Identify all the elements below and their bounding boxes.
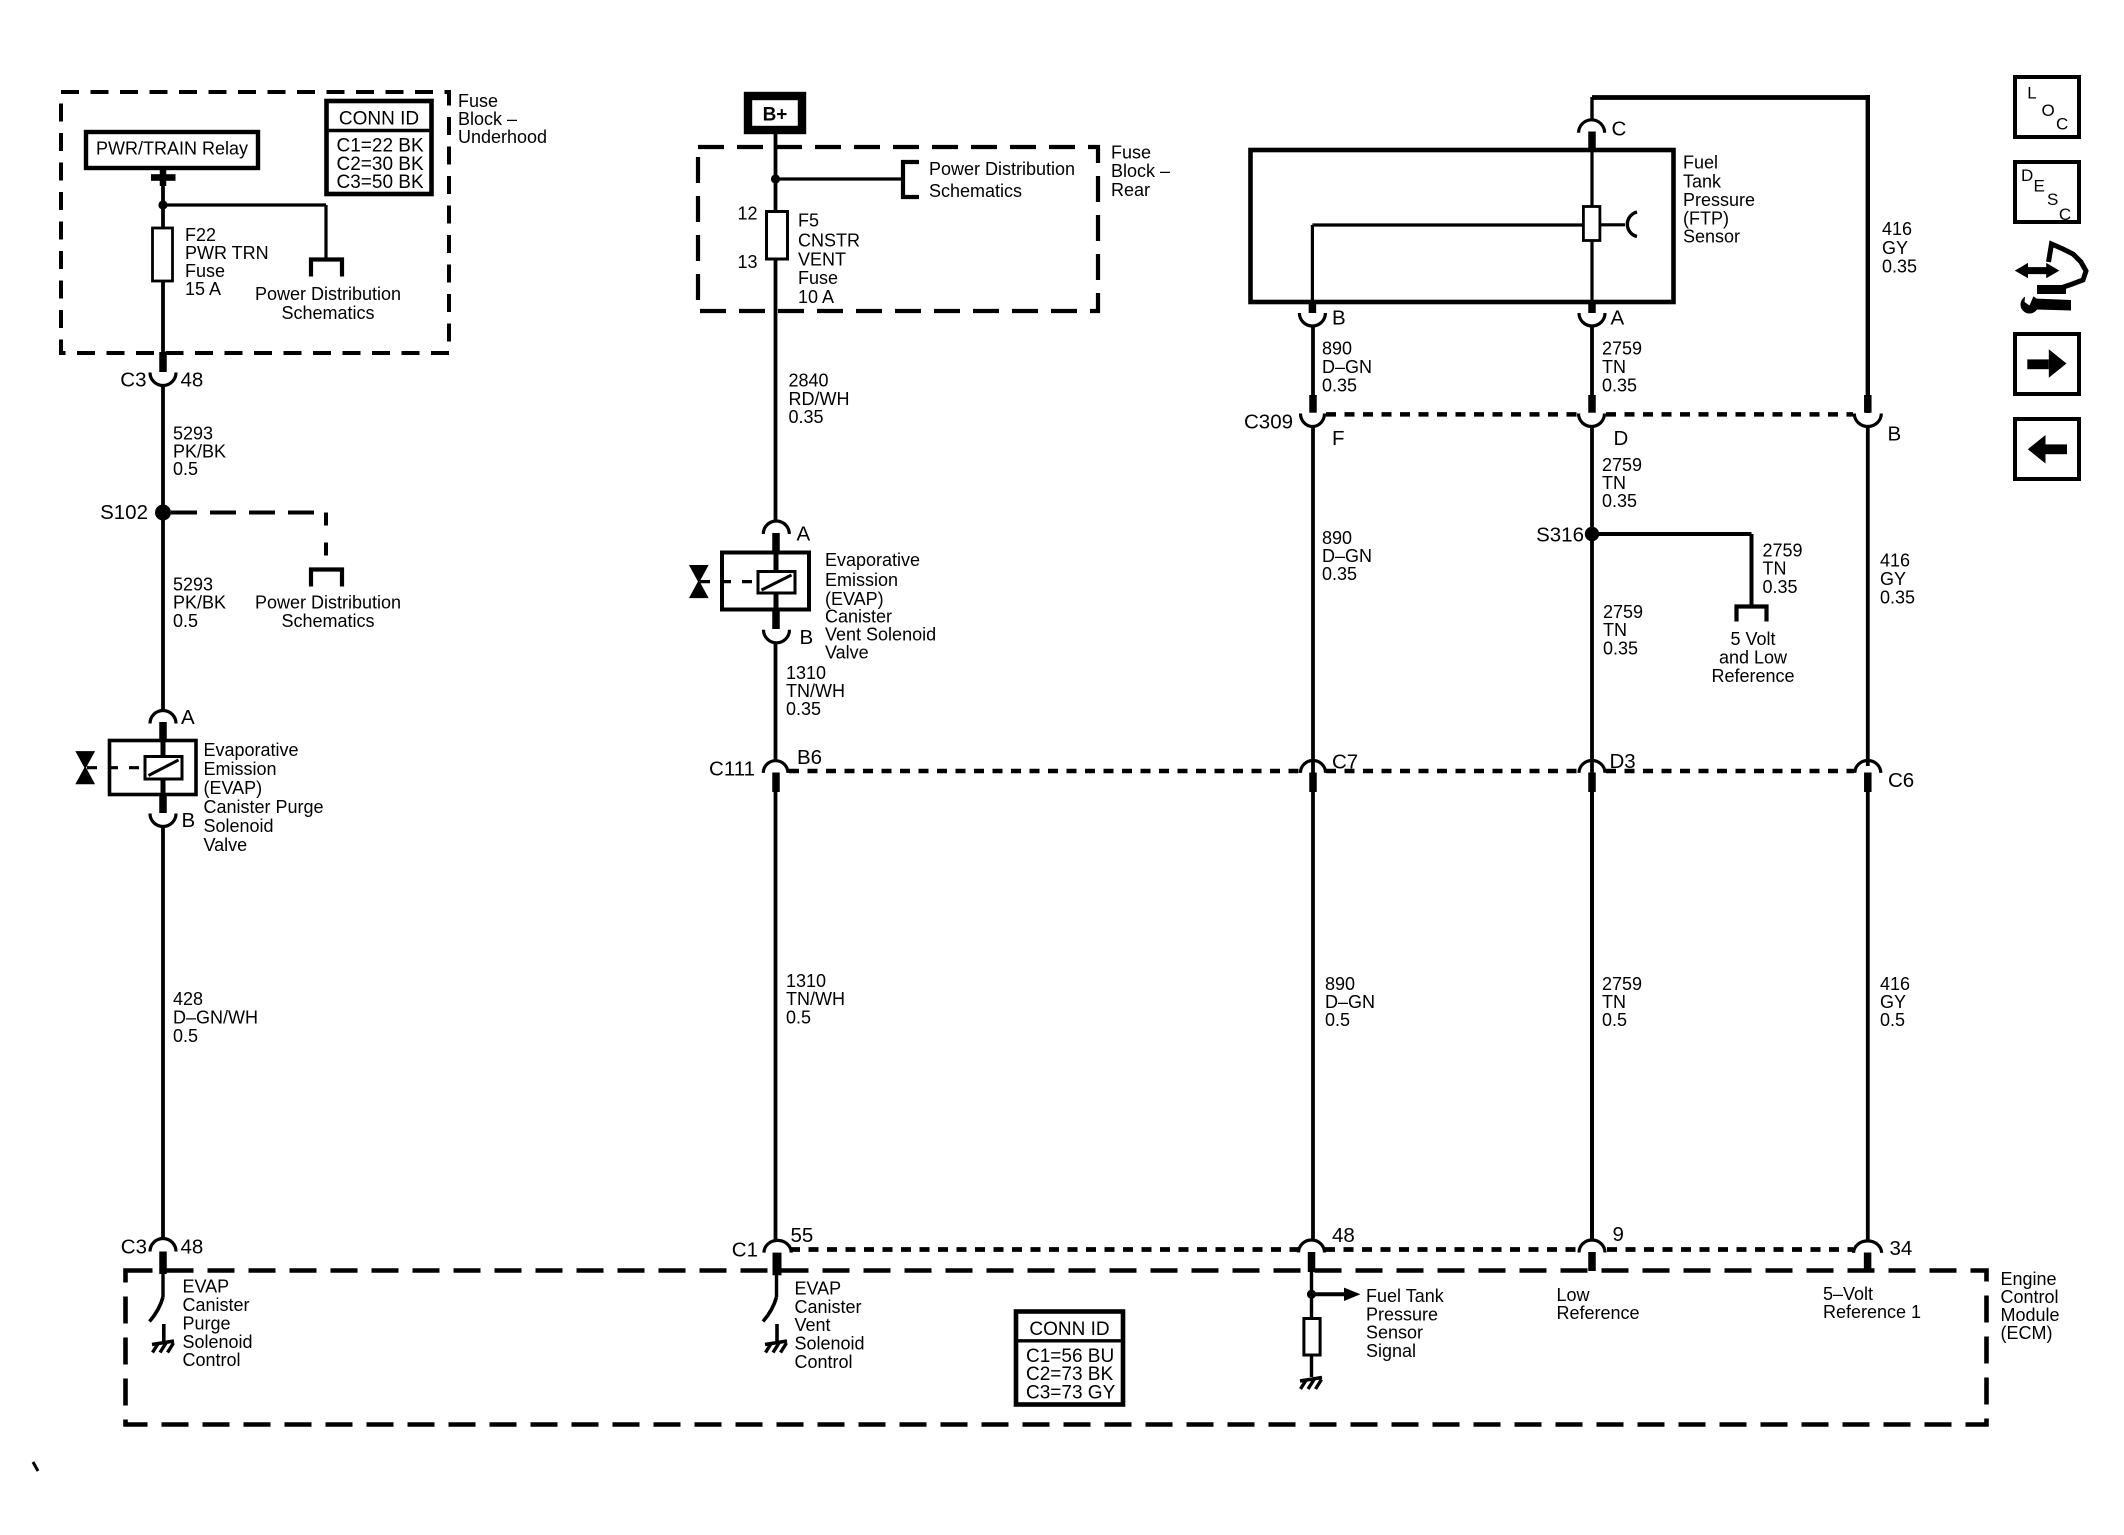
svg-text:Canister Purge: Canister Purge <box>204 797 324 817</box>
svg-text:A: A <box>1611 307 1625 330</box>
wire: tap to power distribution <box>776 177 904 180</box>
relay K: PWR/TRAIN Relay box <box>86 132 258 168</box>
connector pin B (FTP) <box>1309 301 1317 313</box>
svg-text:Purge: Purge <box>183 1313 231 1333</box>
svg-text:0.35: 0.35 <box>1602 491 1637 511</box>
svg-text:TN: TN <box>1603 620 1627 640</box>
connector C111 pin C7 <box>1300 761 1325 773</box>
svg-text:5 Volt: 5 Volt <box>1730 629 1775 649</box>
svg-text:Pressure: Pressure <box>1683 190 1755 210</box>
svg-text:B6: B6 <box>797 746 822 769</box>
svg-text:B: B <box>800 626 814 649</box>
svg-text:Canister: Canister <box>795 1297 862 1317</box>
Fuel Tank Pressure sensor box <box>1251 150 1674 302</box>
wire 2759 TN 0.35 (upper) <box>1590 326 1594 396</box>
svg-text:L: L <box>2027 84 2036 103</box>
svg-text:0.5: 0.5 <box>173 611 198 631</box>
svg-text:Fuse: Fuse <box>798 268 838 288</box>
svg-text:Solenoid: Solenoid <box>204 816 274 836</box>
svg-text:and Low: and Low <box>1719 648 1788 668</box>
wire: relay to fuse F22 <box>161 184 165 228</box>
wire 1310 TN/WH 0.35 <box>774 643 778 760</box>
svg-text:13: 13 <box>737 252 757 272</box>
svg-text:C1: C1 <box>732 1238 758 1261</box>
svg-text:Solenoid: Solenoid <box>183 1332 253 1352</box>
svg-text:Fuse: Fuse <box>185 261 225 281</box>
svg-text:RD/WH: RD/WH <box>789 389 850 409</box>
icon: DESC button <box>2015 162 2079 222</box>
svg-text:2840: 2840 <box>789 371 829 391</box>
svg-text:C: C <box>2056 115 2068 134</box>
svg-text:9: 9 <box>1613 1223 1624 1246</box>
svg-text:Sensor: Sensor <box>1366 1323 1423 1343</box>
off-page bracket: Power Distribution (S102) <box>311 570 342 587</box>
svg-text:C3=73 GY: C3=73 GY <box>1026 1382 1116 1403</box>
svg-text:Reference 1: Reference 1 <box>1823 1302 1921 1322</box>
EVAP canister vent solenoid valve box <box>722 553 809 610</box>
connector C111 pin D3 <box>1579 761 1605 773</box>
svg-text:Solenoid: Solenoid <box>795 1334 865 1354</box>
resistor (ECM internal) <box>1304 1319 1320 1356</box>
svg-text:1310: 1310 <box>786 971 826 991</box>
dashed tap from S102 <box>171 511 326 515</box>
component box: Fuse Block - Rear (dashed) <box>698 147 1098 311</box>
wire 890 D-GN 0.35 (upper) <box>1311 326 1315 396</box>
svg-text:PWR/TRAIN Relay: PWR/TRAIN Relay <box>96 139 248 159</box>
svg-text:Emission: Emission <box>204 759 277 779</box>
module box: Engine Control Module (dashed) <box>126 1271 1987 1425</box>
svg-text:0.5: 0.5 <box>1880 1010 1905 1030</box>
svg-text:D–GN: D–GN <box>1322 546 1372 566</box>
wire 5293 PK/BK 0.5 <box>161 387 165 712</box>
connector pin B (EVAP purge valve) <box>159 795 167 814</box>
svg-text:2759: 2759 <box>1763 540 1803 560</box>
connector pin 9 (Low Reference) <box>1579 1240 1605 1253</box>
svg-text:TN: TN <box>1602 992 1626 1012</box>
svg-text:Power Distribution: Power Distribution <box>255 593 401 613</box>
svg-text:0.35: 0.35 <box>1880 587 1915 607</box>
connector C111 pin C6 <box>1855 761 1881 773</box>
CONN ID table (underhood fuse block) <box>327 101 432 194</box>
svg-text:C3: C3 <box>120 369 146 392</box>
off-page bracket: 5 Volt and Low Reference <box>1737 607 1767 622</box>
svg-text:VENT: VENT <box>798 249 846 269</box>
svg-text:(EVAP): (EVAP) <box>204 778 263 798</box>
svg-text:D–GN/WH: D–GN/WH <box>173 1008 258 1028</box>
relay terminal bar <box>160 168 167 186</box>
ground (ECM internal) <box>1300 1378 1322 1382</box>
svg-text:Fuse: Fuse <box>1111 142 1151 162</box>
svg-text:PWR TRN: PWR TRN <box>185 243 269 263</box>
svg-text:B: B <box>1888 423 1902 446</box>
wire: B+ into fuse block <box>774 134 778 212</box>
svg-text:2759: 2759 <box>1603 602 1643 622</box>
valve actuator symbol (hourglass, vent) <box>690 566 707 598</box>
wire: tap to power distribution reference <box>163 203 326 206</box>
ECM driver switch (EVAP vent control) <box>775 1273 778 1297</box>
splice S102 <box>155 505 171 521</box>
svg-text:Underhood: Underhood <box>458 127 547 147</box>
svg-text:Tank: Tank <box>1683 172 1722 192</box>
wire 890 D-GN 0.35 (lower) <box>1311 427 1315 1241</box>
svg-text:Engine: Engine <box>2001 1269 2057 1289</box>
svg-text:CNSTR: CNSTR <box>798 231 860 251</box>
connector pin B (EVAP vent valve) <box>772 610 780 630</box>
svg-text:C: C <box>1612 118 1627 141</box>
svg-text:34: 34 <box>1890 1237 1913 1260</box>
svg-text:CONN ID: CONN ID <box>339 108 419 129</box>
svg-text:TN/WH: TN/WH <box>786 681 845 701</box>
svg-text:0.35: 0.35 <box>1882 257 1917 277</box>
svg-text:B: B <box>182 809 196 832</box>
svg-text:D: D <box>1614 427 1629 450</box>
ground (vent driver) <box>765 1341 787 1345</box>
svg-text:(FTP): (FTP) <box>1683 208 1729 228</box>
in-line harness connector row C111 (dashed) <box>789 769 1300 774</box>
svg-text:Module: Module <box>2001 1305 2060 1325</box>
FTP internal: resistor + wiper <box>1590 150 1593 207</box>
connector pin 48 (FTP signal) <box>1299 1240 1325 1253</box>
junction node <box>771 174 780 183</box>
svg-text:10 A: 10 A <box>798 287 834 307</box>
icon: connector repair (arrows + wrench) <box>2015 244 2086 314</box>
svg-text:Schematics: Schematics <box>281 611 374 631</box>
fuse F22 PWR TRN 15 A <box>153 228 173 281</box>
svg-text:O: O <box>2042 101 2055 120</box>
svg-text:Valve: Valve <box>825 643 869 663</box>
svg-text:0.35: 0.35 <box>786 699 821 719</box>
wire 1310 TN/WH 0.5 <box>774 791 778 1240</box>
svg-text:Signal: Signal <box>1366 1341 1416 1361</box>
svg-text:Vent: Vent <box>795 1315 831 1335</box>
battery feed B+ box <box>748 96 802 130</box>
svg-text:12: 12 <box>737 204 757 224</box>
svg-text:Vent Solenoid: Vent Solenoid <box>825 625 936 645</box>
wire: FTP C to 5V ref (top run) <box>1592 95 1868 100</box>
svg-text:D: D <box>2021 166 2033 185</box>
svg-text:Sensor: Sensor <box>1683 227 1740 247</box>
connector pin C (FTP sensor) <box>1579 120 1605 133</box>
svg-text:Rear: Rear <box>1111 180 1150 200</box>
connector pin A (EVAP vent valve) <box>763 521 789 534</box>
svg-text:48: 48 <box>1332 1224 1355 1247</box>
svg-text:Control: Control <box>183 1350 241 1370</box>
svg-text:Control: Control <box>795 1352 853 1372</box>
svg-text:EVAP: EVAP <box>183 1277 230 1297</box>
component box: Fuse Block - Underhood (dashed) <box>61 92 449 353</box>
svg-text:C: C <box>2059 205 2071 224</box>
svg-text:Fuel Tank: Fuel Tank <box>1366 1286 1445 1306</box>
svg-text:EVAP: EVAP <box>795 1278 842 1298</box>
svg-text:2759: 2759 <box>1602 974 1642 994</box>
in-line connector row C309 (dashed) <box>1326 412 1578 417</box>
svg-text:48: 48 <box>181 1236 204 1259</box>
valve actuator symbol (hourglass) <box>77 752 94 784</box>
FTP signal input: arrow + pull resistor <box>1310 1271 1313 1319</box>
svg-text:TN: TN <box>1602 357 1626 377</box>
wire 416 GY 0.5 <box>1866 791 1870 1241</box>
solenoid coil (inner) <box>758 572 795 594</box>
svg-text:C3=50 BK: C3=50 BK <box>337 172 424 193</box>
connector C1 pin 55 (ECM) <box>764 1240 791 1252</box>
svg-text:2759: 2759 <box>1602 455 1642 475</box>
svg-text:C309: C309 <box>1244 411 1293 434</box>
svg-text:Block –: Block – <box>1111 161 1170 181</box>
solenoid coil (inner) <box>161 742 166 757</box>
svg-text:Pressure: Pressure <box>1366 1304 1438 1324</box>
svg-text:Valve: Valve <box>204 835 248 855</box>
svg-text:Emission: Emission <box>825 570 898 590</box>
svg-text:Power Distribution: Power Distribution <box>255 284 401 304</box>
svg-text:PK/BK: PK/BK <box>173 593 226 613</box>
svg-text:890: 890 <box>1322 528 1352 548</box>
svg-text:Low: Low <box>1557 1285 1591 1305</box>
splice S316 <box>1585 527 1599 541</box>
dashed actuator linkage (vent) <box>700 580 759 583</box>
svg-text:2759: 2759 <box>1602 339 1642 359</box>
svg-text:B+: B+ <box>763 105 788 126</box>
svg-text:Schematics: Schematics <box>929 181 1022 201</box>
svg-text:GY: GY <box>1880 569 1906 589</box>
connector C309 pin D <box>1579 414 1605 427</box>
svg-text:0.35: 0.35 <box>1322 564 1357 584</box>
svg-text:TN: TN <box>1763 559 1787 579</box>
svg-text:C111: C111 <box>709 758 755 781</box>
svg-text:0.35: 0.35 <box>1602 375 1637 395</box>
wire 2759 TN 0.35 (to S316) <box>1590 427 1594 1241</box>
svg-text:416: 416 <box>1882 219 1912 239</box>
icon: next arrow button <box>2015 334 2079 394</box>
svg-text:B: B <box>1332 307 1346 330</box>
svg-text:F22: F22 <box>185 225 216 245</box>
svg-text:Fuel: Fuel <box>1683 152 1718 172</box>
EVAP canister purge solenoid valve box <box>110 741 197 795</box>
wire: fuse to connector C3 <box>161 281 165 354</box>
svg-text:15 A: 15 A <box>185 279 221 299</box>
svg-text:Power Distribution: Power Distribution <box>929 159 1075 179</box>
connector C3 pin 48 (ECM, bottom left) <box>150 1239 176 1252</box>
wire 416 GY 0.35 (right, lower) <box>1866 427 1870 767</box>
CONN ID table (ECM) <box>1016 1312 1123 1405</box>
connector C309 pin B <box>1854 414 1881 427</box>
svg-text:Block –: Block – <box>458 109 517 129</box>
connector C3 pin 48 (fuse block out) <box>150 373 176 386</box>
icon: previous arrow button <box>2015 419 2079 479</box>
svg-text:Fuse: Fuse <box>458 91 498 111</box>
svg-text:55: 55 <box>791 1224 814 1247</box>
svg-text:A: A <box>797 523 811 546</box>
svg-text:0.5: 0.5 <box>173 1026 198 1046</box>
dashed actuator linkage <box>87 766 146 769</box>
svg-text:(ECM): (ECM) <box>2001 1323 2053 1343</box>
ECM connector row (dotted) <box>790 1247 1298 1252</box>
svg-text:0.5: 0.5 <box>1325 1010 1350 1030</box>
svg-text:890: 890 <box>1325 974 1355 994</box>
svg-text:TN: TN <box>1602 473 1626 493</box>
svg-text:48: 48 <box>181 369 204 392</box>
svg-text:0.35: 0.35 <box>1603 638 1638 658</box>
stray tick mark (bottom left) <box>33 1462 38 1471</box>
svg-text:890: 890 <box>1322 339 1352 359</box>
svg-text:C7: C7 <box>1332 751 1358 774</box>
wire 2840 RD/WH 0.35 <box>774 259 778 521</box>
off-page bracket: Power Distribution (fuse block) <box>311 260 342 277</box>
wire 2759 TN 0.5 <box>1590 791 1594 1240</box>
svg-text:D–GN: D–GN <box>1322 357 1372 377</box>
svg-text:Schematics: Schematics <box>281 303 374 323</box>
svg-text:D3: D3 <box>1610 750 1636 773</box>
connector C309 pin F <box>1301 414 1325 427</box>
connector C111 pin B6 <box>763 761 788 773</box>
tap wire to 5V/low reference <box>1592 532 1752 536</box>
svg-text:Reference: Reference <box>1557 1303 1640 1323</box>
svg-text:0.35: 0.35 <box>1322 375 1357 395</box>
svg-text:GY: GY <box>1880 992 1906 1012</box>
svg-text:E: E <box>2034 177 2045 196</box>
wiper pickup arc <box>1627 212 1637 237</box>
ECM driver switch (EVAP purge control) <box>161 1272 164 1297</box>
svg-text:C6: C6 <box>1888 769 1914 792</box>
svg-text:CONN ID: CONN ID <box>1029 1319 1109 1340</box>
ground (purge driver) <box>152 1341 174 1345</box>
svg-text:Canister: Canister <box>183 1295 250 1315</box>
svg-text:428: 428 <box>173 989 203 1009</box>
svg-text:Evaporative: Evaporative <box>204 740 299 760</box>
svg-text:0.5: 0.5 <box>173 459 198 479</box>
svg-text:Canister: Canister <box>825 607 892 627</box>
svg-text:1310: 1310 <box>786 663 826 683</box>
svg-text:S: S <box>2047 190 2058 209</box>
icon: LOC button <box>2015 77 2079 137</box>
svg-text:Evaporative: Evaporative <box>825 550 920 570</box>
svg-text:Control: Control <box>2001 1287 2059 1307</box>
svg-text:C3: C3 <box>121 1236 147 1259</box>
wire 428 D-GN/WH 0.5 <box>161 827 165 1239</box>
svg-text:0.35: 0.35 <box>789 407 824 427</box>
svg-text:TN/WH: TN/WH <box>786 989 845 1009</box>
svg-text:416: 416 <box>1880 551 1910 571</box>
connector pin A (EVAP purge valve) <box>150 711 176 724</box>
svg-text:416: 416 <box>1880 974 1910 994</box>
svg-text:S102: S102 <box>100 501 148 524</box>
svg-text:0.5: 0.5 <box>786 1008 811 1028</box>
svg-text:D–GN: D–GN <box>1325 992 1375 1012</box>
svg-text:F5: F5 <box>798 211 819 231</box>
connector pin 34 (5-Volt Reference 1) <box>1854 1241 1882 1253</box>
svg-text:S316: S316 <box>1536 524 1584 547</box>
fuse F5 CNSTR VENT 10 A <box>767 212 788 260</box>
svg-text:0.35: 0.35 <box>1763 577 1798 597</box>
junction node <box>158 200 167 209</box>
off-page bracket: Power Distribution (rear fuse block) <box>903 162 919 197</box>
svg-text:GY: GY <box>1882 238 1908 258</box>
connector pin A (FTP) <box>1588 301 1596 313</box>
svg-text:0.5: 0.5 <box>1602 1010 1627 1030</box>
svg-text:F: F <box>1332 427 1345 450</box>
svg-text:Reference: Reference <box>1711 666 1794 686</box>
svg-text:A: A <box>181 706 195 729</box>
